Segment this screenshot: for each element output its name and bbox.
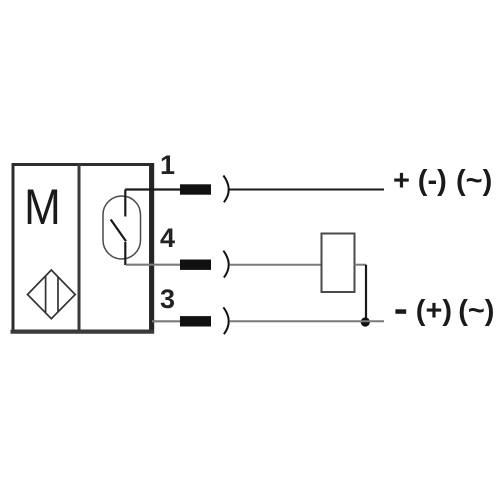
svg-text:+(-)(~): +(-)(~)	[393, 165, 492, 197]
wire pin3 out	[229, 320, 384, 322]
body bottom edge heavy	[11, 330, 155, 334]
pin 3 socket arc	[223, 307, 228, 334]
load resistor box	[322, 234, 355, 293]
switch lever	[111, 220, 126, 242]
diamond inner line left	[45, 276, 47, 313]
pin 1 socket arc	[223, 176, 228, 203]
svg-text:4: 4	[160, 223, 175, 253]
switch bottom contact	[124, 242, 126, 265]
minus dash	[395, 309, 406, 314]
wire pin4 to load	[229, 264, 321, 266]
svg-text:1: 1	[160, 150, 175, 180]
switch top contact	[124, 190, 126, 217]
body right edge heavy	[150, 163, 154, 333]
wire pin1 to contact	[125, 188, 180, 190]
pin 1 contact bar	[180, 184, 211, 194]
wire pin4 to contact	[126, 264, 180, 266]
svg-text:M: M	[24, 178, 61, 234]
load right stub	[355, 264, 367, 266]
pin 3 contact bar	[180, 316, 211, 326]
body divider	[78, 163, 81, 332]
load drop wire	[365, 265, 367, 322]
pin 4 contact bar	[180, 260, 211, 270]
pin 4 socket arc	[223, 251, 228, 278]
wire pin1 out	[229, 189, 384, 191]
junction dot	[361, 317, 370, 326]
switch capsule U1	[103, 196, 141, 259]
pressure cell diamond	[28, 270, 76, 319]
diamond inner line right	[57, 277, 59, 312]
svg-text:(+)(~): (+)(~)	[416, 295, 495, 327]
sensor body box	[13, 165, 151, 332]
svg-text:3: 3	[160, 284, 175, 314]
wire pin3 to contact	[152, 320, 180, 322]
